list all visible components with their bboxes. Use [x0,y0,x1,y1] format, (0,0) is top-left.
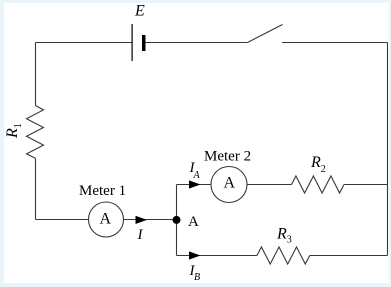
resistor R1 [27,106,44,159]
switch S (open blade) [248,25,283,43]
arrow I (current into node) [136,216,148,224]
battery E long plate [132,24,133,61]
svg-text:Meter 1: Meter 1 [79,183,126,199]
battery E short thick plate [142,35,146,51]
svg-text:R1: R1 [4,123,24,139]
wire left vertical upper (corner to R1 top) [35,43,37,106]
arrow IA (top branch) [189,180,201,188]
wire switch to top-right corner [282,42,388,44]
wire bottom branch node to R3 [177,255,258,257]
svg-text:E: E [134,3,145,20]
wire right vertical [387,43,389,256]
svg-text:I: I [137,227,144,243]
resistor R2 [292,176,345,193]
wire battery to switch [145,42,248,44]
wire R3 to bottom-right corner [310,255,388,257]
svg-text:A: A [100,211,112,228]
wire top branch node to Meter 2 [177,184,212,186]
resistor R3 [257,247,310,264]
wire R2 to right vertical [344,184,388,186]
wire Meter 1 to node A [124,219,177,221]
wire node A vertical (branch) [176,185,178,256]
wire left vertical lower (R1 bottom to bottom-left corner) [35,158,37,219]
arrow IB (bottom branch) [189,251,201,259]
meter M2 circle [211,167,247,203]
node A junction dot [173,216,181,224]
svg-text:A: A [224,175,236,192]
wire bottom-left horizontal (corner to Meter 1) [36,219,89,221]
svg-text:IA: IA [189,160,201,181]
svg-text:Meter 2: Meter 2 [204,149,251,165]
wire top-left horizontal (battery to left corner) [36,42,133,44]
wire Meter 2 to R2 [247,184,292,186]
svg-text:R2: R2 [310,154,326,175]
svg-text:A: A [188,214,199,230]
meter M1 circle [89,202,124,237]
svg-text:R3: R3 [276,226,292,246]
svg-text:IB: IB [189,263,201,283]
